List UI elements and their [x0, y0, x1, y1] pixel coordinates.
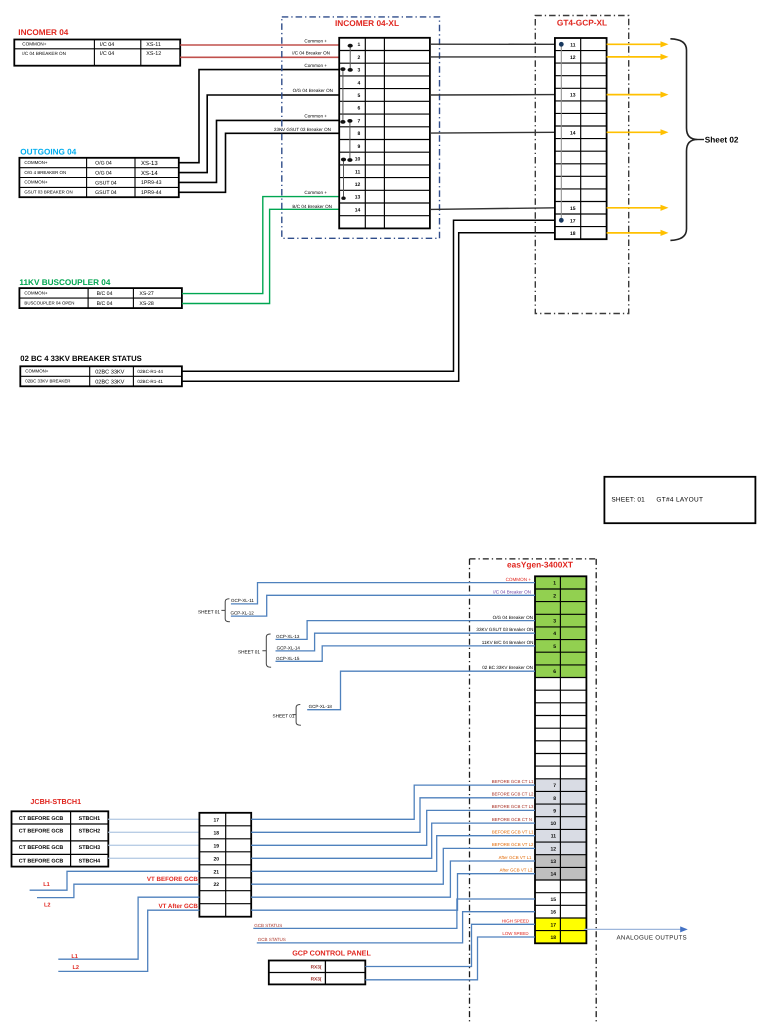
wire terminal 20 to easYgen 10 [251, 823, 535, 858]
svg-text:19: 19 [213, 843, 219, 849]
svg-text:8: 8 [553, 796, 556, 802]
arrow output GT4 terminal 18 to Sheet 02 (yellow) [607, 232, 662, 234]
block border easYgen-3400XT (dash-dot) [470, 558, 597, 560]
svg-text:9: 9 [358, 144, 361, 150]
wire INCOMER-XL 5 to GT4-GCP-XL 13 [430, 94, 555, 96]
brace to Sheet 02 [670, 39, 697, 241]
jumper link terminals 1-3 [349, 46, 351, 69]
wire L1 to terminal 21 [30, 871, 200, 890]
svg-text:GT#4 LAYOUT: GT#4 LAYOUT [656, 496, 703, 503]
svg-text:Common +: Common + [304, 63, 327, 68]
arrow output GT4 terminal 14 to Sheet 02 (yellow) [607, 131, 662, 133]
svg-text:I/C 04: I/C 04 [100, 51, 114, 57]
svg-text:2: 2 [358, 55, 361, 61]
wire GCP-XL-18 to easYgen 6 [307, 671, 535, 710]
junction dot terminal 13 [341, 197, 345, 200]
wire 1PR9-43 to INCOMER 04-XL terminal 7 [179, 120, 339, 182]
svg-text:XS-28: XS-28 [139, 301, 154, 307]
svg-text:02BC 33KV: 02BC 33KV [95, 380, 124, 386]
bracket group 2 [262, 634, 271, 667]
svg-text:1: 1 [358, 42, 361, 48]
svg-text:GCP-XL-18: GCP-XL-18 [309, 704, 333, 709]
svg-text:COMMON +: COMMON + [506, 577, 532, 582]
svg-text:SHEET 01: SHEET 01 [198, 609, 220, 614]
svg-text:7: 7 [358, 118, 361, 124]
wire GCB STATUS to easYgen 16 [257, 912, 535, 943]
arrow output GT4 terminal 11 to Sheet 02 (yellow) [607, 43, 662, 45]
wire terminal aux to easYgen 14 [251, 874, 535, 911]
wire XS-27 to INCOMER 04-XL terminal 13 (green) [182, 197, 339, 294]
svg-text:2: 2 [553, 593, 556, 599]
svg-text:12: 12 [550, 846, 556, 852]
faint wire STBCH3 to terminal 19 [108, 844, 199, 846]
wire RX3 to easYgen 17 [365, 924, 535, 966]
svg-text:4: 4 [553, 631, 556, 637]
svg-text:6: 6 [358, 106, 361, 112]
wire 1PR9-44 to INCOMER 04-XL terminal 8 [179, 133, 339, 192]
svg-text:INCOMER 04-XL: INCOMER 04-XL [335, 18, 399, 28]
svg-text:33KV GSUT 03 Breaker ON: 33KV GSUT 03 Breaker ON [476, 627, 533, 632]
svg-text:OUTGOING 04: OUTGOING 04 [20, 148, 76, 157]
svg-text:STBCH3: STBCH3 [79, 845, 101, 851]
svg-text:02 BC 4 33KV BREAKER STATUS: 02 BC 4 33KV BREAKER STATUS [20, 354, 141, 363]
wire GCP-XL-11 to easYgen 1 [231, 583, 535, 604]
jumper link terminals 7-10 [349, 121, 351, 160]
svg-text:I/C 04 BREAKER ON: I/C 04 BREAKER ON [22, 51, 66, 56]
svg-text:18: 18 [570, 231, 576, 237]
svg-text:CT BEFORE GCB: CT BEFORE GCB [19, 816, 64, 822]
svg-text:1: 1 [553, 581, 556, 587]
table JCBH-STBCH1 (CT BEFORE GCB / STBCH1-4) [12, 811, 109, 866]
table OUTGOING 04 (O/G 04 / GSUT 04) [19, 158, 178, 197]
jumper link terminals 3-7 [342, 69, 344, 122]
wire XS-11 to INCOMER 04-XL terminal 1 (red) [180, 44, 339, 46]
svg-text:GCP-XL-13: GCP-XL-13 [276, 634, 300, 639]
wire 02BC-R1-44 to GT4-GCP-XL terminal 15 [182, 220, 555, 371]
svg-text:5: 5 [553, 644, 556, 650]
svg-text:O/G 4 BREAKER ON: O/G 4 BREAKER ON [24, 170, 66, 175]
svg-text:ANALOGUE OUTPUTS: ANALOGUE OUTPUTS [617, 935, 687, 942]
svg-text:10: 10 [550, 821, 556, 827]
svg-text:COMMON+: COMMON+ [22, 42, 46, 47]
svg-text:02 BC 33KV Breaker ON: 02 BC 33KV Breaker ON [482, 665, 533, 670]
wire GCP-XL-13 to easYgen 3 [276, 621, 536, 640]
terminal strip easYgen-3400XT (terminals 1-18) [535, 576, 586, 943]
wire terminal 17 to easYgen 7 [251, 785, 535, 819]
wire 02BC-R1-41 to GT4-GCP-XL terminal 16/18 row [182, 233, 555, 381]
svg-text:11KV BUSCOUPLER 04: 11KV BUSCOUPLER 04 [19, 278, 110, 287]
svg-text:11: 11 [355, 169, 361, 175]
junction dot GT4 terminal 17 [559, 218, 564, 223]
svg-text:12: 12 [570, 55, 576, 61]
table GCP CONTROL PANEL (RX3) [269, 961, 366, 985]
svg-text:9: 9 [553, 808, 556, 814]
svg-text:I/C 04 Breaker ON: I/C 04 Breaker ON [493, 590, 531, 595]
svg-text:I/C 04 Breaker ON: I/C 04 Breaker ON [292, 51, 330, 56]
svg-text:GCP CONTROL PANEL: GCP CONTROL PANEL [292, 948, 371, 957]
wire terminal aux to easYgen 13 [251, 861, 535, 897]
terminal strip 17-22 (VT junction block) [199, 813, 251, 917]
svg-text:HIGH SPEED: HIGH SPEED [502, 918, 529, 923]
svg-text:13: 13 [550, 859, 556, 865]
svg-text:COMMON+: COMMON+ [24, 180, 47, 185]
svg-text:12: 12 [355, 182, 361, 188]
wire XS-13 to INCOMER 04-XL terminal 3 [179, 70, 339, 163]
svg-text:XS-14: XS-14 [141, 170, 158, 177]
svg-text:After GCB VT L1: After GCB VT L1 [499, 855, 532, 860]
svg-text:14: 14 [550, 872, 556, 878]
svg-text:SHEET 01: SHEET 01 [272, 713, 294, 718]
arrow ANALOGUE OUTPUTS [584, 928, 682, 930]
wire XS-12 to INCOMER 04-XL terminal 2 (red) [180, 56, 339, 58]
wire GCB STATUS to easYgen 15 [253, 899, 535, 928]
faint wire STBCH2 to terminal 18 [108, 831, 199, 833]
wire INCOMER-XL 14 to GT4-GCP-XL 15 [430, 208, 555, 210]
junction dots terminal 3 [340, 67, 345, 71]
bracket group 1 [221, 599, 230, 622]
svg-text:COMMON+: COMMON+ [25, 369, 48, 374]
svg-text:After GCB VT L2: After GCB VT L2 [500, 867, 533, 872]
svg-text:17: 17 [570, 218, 576, 224]
svg-text:CT BEFORE GCB: CT BEFORE GCB [19, 828, 64, 834]
svg-text:18: 18 [213, 830, 219, 836]
wire GCP-XL-14 to easYgen 4 [276, 633, 536, 651]
table INCOMER 04 (I/C 04 XS-11/XS-12) [14, 40, 180, 66]
svg-text:Common +: Common + [304, 113, 327, 118]
svg-text:O/G 04 Breaker ON: O/G 04 Breaker ON [293, 88, 333, 93]
svg-text:14: 14 [570, 130, 576, 136]
svg-text:14: 14 [355, 207, 361, 213]
svg-text:COMMON+: COMMON+ [24, 160, 47, 165]
junction dots terminal 10 [341, 158, 346, 162]
svg-text:LOW SPEED: LOW SPEED [502, 931, 528, 936]
svg-text:GCP-XL-14: GCP-XL-14 [277, 646, 301, 651]
svg-text:GCP-XL-12: GCP-XL-12 [231, 611, 255, 616]
svg-text:L2: L2 [44, 903, 51, 909]
svg-text:16: 16 [550, 910, 556, 916]
svg-text:INCOMER 04: INCOMER 04 [18, 28, 68, 37]
svg-text:11: 11 [570, 42, 576, 48]
svg-text:BEFORE GCB CT L2: BEFORE GCB CT L2 [492, 792, 534, 797]
svg-text:O/G 04 Breaker ON: O/G 04 Breaker ON [493, 615, 533, 620]
svg-text:STBCH4: STBCH4 [79, 858, 101, 864]
svg-text:GT4-GCP-XL: GT4-GCP-XL [557, 17, 607, 27]
wire terminal 18 to easYgen 8 [251, 798, 535, 833]
jumper link GT4 terminals 11-17 [560, 44, 562, 220]
terminal strip GT4-GCP-XL (terminals 11-18) [555, 38, 607, 239]
svg-text:RX3(: RX3( [311, 964, 322, 970]
svg-text:easYgen-3400XT: easYgen-3400XT [507, 560, 573, 570]
svg-text:6: 6 [553, 669, 556, 675]
svg-text:GSUT 04: GSUT 04 [95, 180, 117, 186]
svg-text:GCP-XL-15: GCP-XL-15 [276, 656, 300, 661]
table 02 BC 33KV breaker (02BC-R1-44/41) [20, 366, 182, 386]
svg-text:11: 11 [551, 834, 557, 840]
svg-text:7: 7 [553, 783, 556, 789]
svg-text:17: 17 [213, 817, 219, 823]
junction dot terminal 1 [348, 44, 353, 48]
wire terminal 22 to easYgen 12 [251, 848, 535, 884]
svg-text:XS-13: XS-13 [141, 160, 158, 167]
svg-text:GCB STATUS: GCB STATUS [254, 923, 282, 928]
svg-text:21: 21 [213, 869, 219, 875]
wire GCP-XL-15 to easYgen 5 [276, 646, 536, 661]
svg-text:Common +: Common + [304, 190, 327, 195]
svg-text:SHEET 01: SHEET 01 [238, 649, 260, 654]
svg-text:GCP-XL-11: GCP-XL-11 [231, 598, 254, 603]
svg-text:RX3(: RX3( [311, 976, 322, 982]
svg-text:BUSCOUPLER 04 OPEN: BUSCOUPLER 04 OPEN [24, 301, 74, 306]
wire L2 to terminal row 8 [58, 910, 199, 971]
svg-text:BEFORE GCB VT L1: BEFORE GCB VT L1 [492, 830, 534, 835]
svg-text:B/C 04: B/C 04 [97, 291, 113, 297]
svg-text:L2: L2 [73, 965, 80, 971]
svg-text:CT BEFORE GCB: CT BEFORE GCB [19, 858, 64, 864]
svg-text:Common +: Common + [304, 38, 327, 43]
svg-text:15: 15 [550, 897, 556, 903]
terminal strip INCOMER 04-XL (terminals 1-14) [339, 38, 430, 229]
svg-text:JCBH-STBCH1: JCBH-STBCH1 [30, 797, 81, 806]
wire L1 to terminal row 7 [58, 897, 199, 959]
svg-text:13: 13 [355, 195, 361, 201]
svg-text:VT BEFORE GCB: VT BEFORE GCB [147, 876, 198, 883]
wire INCOMER-XL 8 to GT4-GCP-XL 14 [430, 131, 555, 134]
svg-text:GSUT 03 BREAKER ON: GSUT 03 BREAKER ON [24, 190, 72, 195]
svg-text:13: 13 [570, 93, 576, 99]
wire XS-14 to INCOMER 04-XL terminal 5 [179, 95, 339, 173]
svg-text:SHEET: 01: SHEET: 01 [611, 496, 645, 503]
svg-text:3: 3 [553, 619, 556, 625]
arrow output GT4 terminal 15 to Sheet 02 (yellow) [607, 207, 662, 209]
svg-text:B/C 04: B/C 04 [97, 301, 113, 307]
svg-text:GCB STATUS: GCB STATUS [258, 937, 286, 942]
svg-text:STBCH1: STBCH1 [79, 816, 101, 822]
sheet title box SHEET:01 GT#4 LAYOUT [604, 477, 755, 523]
wire INCOMER-XL 1 to GT4-GCP-XL 11 [430, 43, 555, 45]
svg-text:STBCH2: STBCH2 [79, 828, 101, 834]
svg-text:20: 20 [213, 856, 219, 862]
svg-text:XS-11: XS-11 [146, 42, 161, 48]
svg-text:O/G 04: O/G 04 [95, 160, 112, 166]
svg-text:5: 5 [358, 93, 361, 99]
svg-text:8: 8 [358, 131, 361, 137]
svg-text:BEFORE GCB CT L3: BEFORE GCB CT L3 [492, 804, 534, 809]
faint wire STBCH4 to terminal 20 [108, 857, 199, 859]
svg-text:22: 22 [213, 882, 219, 888]
bracket group 3 [292, 705, 301, 726]
svg-text:B/C 04 Breaker ON: B/C 04 Breaker ON [292, 204, 332, 209]
svg-text:XS-27: XS-27 [139, 291, 154, 297]
junction dot GT4 terminal 11 [559, 42, 564, 47]
svg-text:BEFORE GCB VT L2: BEFORE GCB VT L2 [492, 842, 534, 847]
svg-text:11KV B/C 04 Breaker ON: 11KV B/C 04 Breaker ON [482, 640, 534, 645]
svg-text:CT BEFORE GCB: CT BEFORE GCB [19, 845, 64, 851]
svg-text:1PR9-43: 1PR9-43 [141, 180, 162, 186]
svg-text:L1: L1 [43, 882, 50, 888]
block border GT4-GCP-XL (dash-dot) [535, 16, 628, 314]
table 11KV BUSCOUPLER 04 (B/C 04 XS-27/XS-28) [19, 288, 182, 308]
svg-text:I/C 04: I/C 04 [100, 42, 114, 48]
svg-text:XS-12: XS-12 [146, 51, 161, 57]
wire terminal 19 to easYgen 9 [251, 810, 535, 845]
junction dots terminal 7 [340, 120, 345, 124]
svg-text:15: 15 [570, 206, 576, 212]
svg-text:10: 10 [355, 157, 361, 163]
wire GCP-XL-12 to easYgen 2 [231, 595, 535, 616]
svg-text:02BC 33KV: 02BC 33KV [95, 370, 124, 376]
wire terminal 21 to easYgen 11 [251, 836, 535, 872]
wire INCOMER-XL 2 to GT4-GCP-XL 12 [430, 56, 555, 58]
svg-text:02BC-R1-41: 02BC-R1-41 [137, 379, 163, 384]
wire RX3 to easYgen 18 [365, 937, 535, 980]
svg-text:O/G 04: O/G 04 [95, 171, 112, 177]
svg-text:Sheet 02: Sheet 02 [705, 135, 739, 144]
svg-text:4: 4 [358, 80, 361, 86]
arrow output GT4 terminal 12 to Sheet 02 (yellow) [607, 56, 662, 58]
jumper link terminals 10-13 [343, 160, 345, 199]
wire XS-28 to INCOMER 04-XL terminal 14 (green) [182, 209, 339, 303]
svg-text:GSUT 04: GSUT 04 [95, 190, 117, 196]
label Sheet 02 [698, 139, 705, 141]
svg-text:18: 18 [550, 935, 556, 941]
svg-text:BEFORE GCB CT L1: BEFORE GCB CT L1 [492, 779, 534, 784]
svg-text:02BC-R1-44: 02BC-R1-44 [137, 369, 163, 374]
svg-text:COMMON+: COMMON+ [24, 291, 47, 296]
svg-text:BEFORE GCB CT N: BEFORE GCB CT N [492, 817, 532, 822]
svg-text:3: 3 [358, 68, 361, 74]
svg-text:VT After GCB: VT After GCB [158, 903, 198, 910]
block border INCOMER 04-XL (dash-dot) [282, 17, 440, 238]
arrow output GT4 terminal 13 to Sheet 02 (yellow) [607, 94, 662, 96]
svg-text:1PR9-44: 1PR9-44 [141, 190, 162, 196]
svg-text:17: 17 [550, 922, 556, 928]
svg-text:33KV GSUT 03 Breaker ON: 33KV GSUT 03 Breaker ON [274, 127, 331, 132]
faint wire STBCH1 to terminal 17 [108, 818, 199, 820]
svg-text:02BC 33KV BREAKER: 02BC 33KV BREAKER [25, 379, 70, 384]
wire L2 to terminal 22 [37, 884, 199, 897]
